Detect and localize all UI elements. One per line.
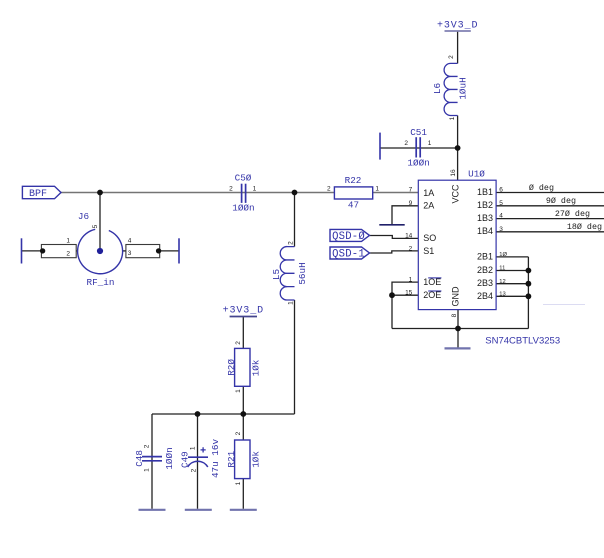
svg-text:4: 4 [128, 238, 132, 245]
svg-text:7: 7 [409, 187, 413, 194]
svg-text:GND: GND [451, 286, 461, 307]
svg-text:1: 1 [235, 389, 242, 393]
svg-text:L6: L6 [432, 83, 443, 94]
svg-text:1ØuH: 1ØuH [458, 77, 469, 99]
svg-text:1B3: 1B3 [477, 213, 493, 223]
svg-text:5: 5 [499, 200, 503, 207]
svg-text:2B4: 2B4 [477, 291, 493, 301]
svg-text:2: 2 [235, 341, 242, 345]
svg-text:2: 2 [235, 431, 242, 435]
svg-text:1: 1 [253, 185, 257, 192]
svg-text:3: 3 [499, 226, 503, 233]
svg-text:5: 5 [92, 224, 99, 228]
svg-text:S1: S1 [423, 246, 434, 256]
svg-text:1OE: 1OE [423, 277, 441, 287]
svg-text:1Øk: 1Øk [250, 451, 261, 468]
svg-text:BPF: BPF [29, 189, 47, 200]
svg-text:2A: 2A [423, 201, 434, 211]
svg-text:QSD-1: QSD-1 [332, 248, 365, 260]
svg-text:R22: R22 [345, 175, 362, 186]
svg-text:56uH: 56uH [297, 262, 308, 284]
svg-text:VCC: VCC [451, 184, 461, 204]
svg-text:R2Ø: R2Ø [226, 359, 237, 376]
svg-text:RF_in: RF_in [87, 277, 115, 288]
svg-text:16: 16 [450, 169, 457, 177]
svg-text:L5: L5 [271, 269, 282, 280]
svg-text:1: 1 [375, 185, 379, 192]
svg-text:6: 6 [499, 187, 503, 194]
svg-text:1ØØn: 1ØØn [232, 202, 254, 213]
svg-text:+3V3_D: +3V3_D [223, 306, 264, 317]
svg-text:1: 1 [66, 238, 70, 245]
svg-text:2B1: 2B1 [477, 251, 493, 261]
svg-text:1B1: 1B1 [477, 187, 493, 197]
svg-text:R21: R21 [226, 450, 237, 467]
svg-text:1: 1 [428, 140, 432, 147]
svg-text:1: 1 [409, 277, 413, 284]
svg-text:U1Ø: U1Ø [468, 169, 485, 180]
svg-text:47: 47 [348, 199, 359, 210]
svg-text:2: 2 [288, 241, 295, 245]
svg-text:1A: 1A [423, 188, 434, 198]
svg-text:8: 8 [451, 313, 458, 317]
svg-text:27Ø deg: 27Ø deg [555, 209, 590, 219]
svg-text:SO: SO [423, 233, 436, 243]
svg-text:1: 1 [288, 301, 295, 305]
svg-text:14: 14 [405, 233, 413, 240]
svg-text:1: 1 [235, 481, 242, 485]
svg-text:13: 13 [499, 291, 505, 297]
svg-text:2: 2 [327, 185, 331, 192]
svg-text:2B3: 2B3 [477, 278, 493, 288]
svg-text:1Øk: 1Øk [250, 359, 261, 376]
svg-text:1: 1 [144, 468, 151, 472]
svg-text:2: 2 [66, 251, 70, 258]
svg-text:18Ø deg: 18Ø deg [567, 222, 602, 232]
svg-text:11: 11 [499, 266, 505, 272]
svg-text:4: 4 [499, 213, 503, 220]
svg-text:2: 2 [409, 245, 413, 252]
svg-text:C48: C48 [134, 450, 145, 467]
svg-text:9: 9 [409, 200, 413, 207]
svg-text:C51: C51 [410, 127, 427, 138]
svg-text:12: 12 [499, 279, 505, 285]
svg-text:C49: C49 [180, 451, 191, 468]
svg-text:3: 3 [128, 250, 132, 257]
svg-text:C5Ø: C5Ø [235, 172, 252, 183]
svg-text:2: 2 [404, 140, 408, 147]
svg-text:J6: J6 [78, 211, 89, 222]
svg-text:1: 1 [190, 446, 197, 450]
svg-text:9Ø deg: 9Ø deg [546, 196, 576, 206]
svg-text:2: 2 [448, 55, 455, 59]
svg-text:2: 2 [144, 444, 151, 448]
svg-text:2B2: 2B2 [477, 265, 493, 275]
svg-text:SN74CBTLV3253: SN74CBTLV3253 [485, 336, 560, 347]
svg-text:QSD-Ø: QSD-Ø [332, 231, 365, 243]
svg-text:1ØØn: 1ØØn [164, 447, 175, 469]
svg-text:15: 15 [405, 290, 413, 297]
svg-text:47u 16v: 47u 16v [210, 439, 221, 478]
svg-text:1B4: 1B4 [477, 226, 493, 236]
svg-text:+3V3_D: +3V3_D [437, 20, 478, 31]
svg-text:2: 2 [229, 185, 233, 192]
svg-text:1: 1 [449, 116, 456, 120]
svg-text:2OE: 2OE [423, 290, 441, 300]
svg-text:1ØØn: 1ØØn [407, 157, 429, 168]
svg-text:1B2: 1B2 [477, 200, 493, 210]
svg-text:2: 2 [191, 468, 198, 472]
svg-text:Ø deg: Ø deg [529, 183, 554, 193]
svg-text:1Ø: 1Ø [499, 252, 507, 258]
